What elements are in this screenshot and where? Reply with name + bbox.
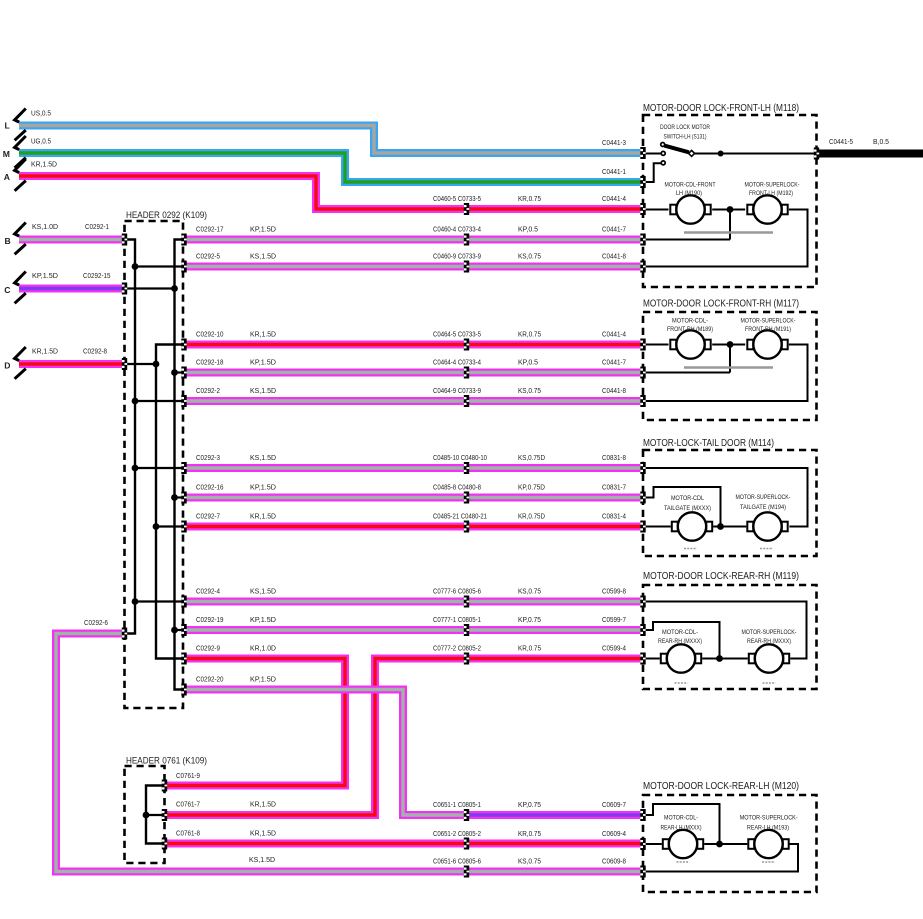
label REAR-LH (MXXX) [661, 825, 702, 832]
svg-text:KS,1.5D: KS,1.5D [250, 587, 277, 596]
svg-text:KS,1.0D: KS,1.0D [32, 222, 59, 231]
label C0292-4 [196, 587, 220, 596]
svg-text:C0292-7: C0292-7 [196, 512, 220, 521]
pin C0292-9 [181, 653, 186, 665]
off-page arrow A [15, 159, 26, 191]
label C0292-7 [196, 512, 220, 521]
svg-text:C0441-5: C0441-5 [829, 137, 853, 146]
pin C0292-2 [181, 395, 186, 407]
svg-text:KS,1.5D: KS,1.5D [250, 386, 277, 395]
label C0464-9 C0733-9 [433, 386, 481, 395]
svg-text:KR,0.75D: KR,0.75D [518, 512, 545, 521]
inline connector C0777-2/C0805-2 [464, 653, 469, 665]
svg-text:KS,0.75: KS,0.75 [518, 587, 541, 596]
inline connector C0485-21/C0480-21 [464, 521, 469, 533]
label KR,1.5D row D [32, 347, 59, 356]
junction KS-C0292-2 [132, 398, 139, 405]
off-page arrow B [15, 223, 26, 255]
svg-text:KP,1.5D: KP,1.5D [250, 615, 277, 624]
svg-text:C0485-10 C0480-10: C0485-10 C0480-10 [433, 453, 487, 462]
svg-text:C0761-8: C0761-8 [176, 829, 200, 838]
svg-text:C0292-18: C0292-18 [196, 358, 224, 367]
wire KS C0292-6 to C0609-8 [56, 634, 641, 872]
svg-text:C0292-6: C0292-6 [84, 618, 108, 627]
pin label C0609-8 y863.5 [602, 857, 626, 866]
pin C0292-5 [181, 261, 186, 273]
svg-text:MOTOR-SUPERLOCK-: MOTOR-SUPERLOCK- [741, 318, 796, 325]
svg-text:C0464-5 C0733-5: C0464-5 C0733-5 [433, 330, 481, 339]
label MOTOR-CDL tailgate [671, 495, 704, 502]
pin C0292-16 [181, 492, 186, 504]
label KP,0.5 at y231.5 [518, 225, 538, 234]
svg-text:C0831-4: C0831-4 [602, 512, 626, 521]
inline connector C0464-9/C0733-9 [464, 395, 469, 407]
svg-text:KP,1.5D: KP,1.5D [250, 675, 277, 684]
wire KP,1.5D from C to C0292-15 [19, 285, 126, 293]
node C [4, 285, 10, 295]
label KR,1.5D row A [31, 160, 58, 169]
label C0292-20 [196, 675, 224, 684]
label B,0.5 [873, 137, 889, 146]
wire KR C0761-7 to C0599-4 [167, 659, 641, 816]
wire US,0.5 from L to C0441-3 [19, 126, 641, 154]
label KP,0.75 at y807 [518, 800, 541, 809]
svg-text:MOTOR-CDL-: MOTOR-CDL- [662, 629, 698, 636]
svg-text:KR,0.75: KR,0.75 [518, 829, 541, 838]
svg-text:REAR-LH (MXXX): REAR-LH (MXXX) [661, 825, 702, 832]
svg-text:C0460-5 C0733-5: C0460-5 C0733-5 [433, 194, 481, 203]
label FRONT-LH (M192) [749, 190, 793, 197]
label C0651-2 C0805-2 [433, 829, 481, 838]
svg-text:TAILGATE (M194): TAILGATE (M194) [740, 504, 786, 511]
pin C0292-8 [122, 358, 127, 370]
box M114 MOTOR-LOCK-TAIL DOOR [643, 450, 817, 556]
wire KS stub to C0292-4 [135, 600, 184, 602]
svg-text:KP,0.75: KP,0.75 [518, 800, 541, 809]
svg-text:KS,0.75: KS,0.75 [518, 857, 541, 866]
svg-text:C0460-9 C0733-9: C0460-9 C0733-9 [433, 252, 481, 261]
pin C0441-1 [640, 176, 645, 188]
label C0292-15 [83, 271, 111, 280]
label C0460-5 C0733-5 [433, 194, 481, 203]
svg-text:MOTOR-CDL-: MOTOR-CDL- [672, 318, 708, 325]
label FRONT-RH (M189) [667, 326, 713, 333]
svg-text:TAILGATE (MXXX): TAILGATE (MXXX) [664, 505, 711, 512]
wire C0441-4 to motor M190 [643, 209, 669, 211]
svg-text:C0761-7: C0761-7 [176, 800, 200, 809]
svg-text:C0460-4 C0733-4: C0460-4 C0733-4 [433, 225, 481, 234]
wire KR bus in header 0292 [156, 345, 184, 659]
svg-text:KS,1.5D: KS,1.5D [250, 453, 277, 462]
label MOTOR-SUPERLOCK- M194 [736, 494, 791, 501]
wire KP bus in header 0292 [175, 240, 185, 690]
pin C0292-19 [181, 624, 186, 636]
wire KR stub from C0292-8 [125, 363, 157, 365]
svg-text:FRONT-LH (M192): FRONT-LH (M192) [749, 190, 793, 197]
pin C0292-15 [122, 283, 127, 295]
wire KP C0292-16 to C0831-7 [186, 494, 641, 502]
pin label C0831-8 y460 [602, 453, 626, 462]
label KR,0.75 at y650.5 [518, 644, 541, 653]
wire stub to C0761-7 [146, 814, 165, 816]
inline connector C0777-1/C0805-1 [464, 624, 469, 636]
wire B,0.5 ground cable from C0441-5 [818, 150, 923, 158]
svg-text:KR,1.5D: KR,1.5D [31, 160, 58, 169]
title box M114 [643, 438, 774, 449]
label KS,1.5D for C0292-5 [250, 252, 277, 261]
svg-text:REAR-RH (MXXX): REAR-RH (MXXX) [658, 638, 702, 645]
pin C0831-7 [640, 492, 645, 504]
wire C0831-4 to motor MXXX [643, 526, 671, 528]
svg-text:REAR-RH (MXXX): REAR-RH (MXXX) [747, 638, 791, 645]
svg-text:C0651-2 C0805-2: C0651-2 C0805-2 [433, 829, 481, 838]
motor M194 MOTOR-SUPERLOCK-TAILGATE [747, 512, 787, 540]
motor MOTOR-CDL-REAR-RH [661, 644, 701, 672]
box M118 MOTOR-DOOR LOCK-FRONT-LH [643, 115, 817, 287]
label KP,0.75 at y622 [518, 615, 541, 624]
junction C0761-7 [143, 812, 150, 819]
label MOTOR-CDL-FRONT [665, 182, 716, 189]
wire C0441-3 to switch [643, 153, 661, 155]
pin label C0441-7 y231.5 [602, 225, 626, 234]
svg-text:C0292-16: C0292-16 [196, 483, 224, 492]
svg-text:C0609-7: C0609-7 [602, 800, 626, 809]
label KP,0.75D at y489.5 [518, 483, 546, 492]
svg-text:C0599-8: C0599-8 [602, 587, 626, 596]
pin label C0441-4 y201 [602, 194, 626, 203]
label KS,1.0D row B [32, 222, 59, 231]
svg-text:KP,1.5D: KP,1.5D [32, 271, 59, 280]
svg-text:C0441-1: C0441-1 [602, 167, 626, 176]
ground hatch tailgate superlock [760, 548, 773, 550]
wire KS stub to C0292-2 [135, 400, 184, 402]
svg-text:MOTOR-DOOR LOCK-REAR-RH (M119): MOTOR-DOOR LOCK-REAR-RH (M119) [643, 571, 799, 582]
label KR,0.75 at y336.5 [518, 330, 541, 339]
inline connector C0651-1/C0805-1 [464, 809, 469, 821]
pin label C0599-4 y650.5 [602, 644, 626, 653]
label KS,1.5D bottom [249, 855, 276, 864]
label KR,1.0D for C0292-9 [250, 644, 277, 653]
label C0761-8 [176, 829, 200, 838]
wire KS C0292-4 to C0599-8 [186, 598, 641, 606]
node D [4, 361, 10, 371]
svg-text:US,0.5: US,0.5 [31, 109, 51, 118]
pin C0599-4 [640, 653, 645, 665]
svg-text:C0441-4: C0441-4 [602, 194, 626, 203]
svg-text:KS,1.5D: KS,1.5D [249, 855, 276, 864]
label MOTOR-CDL- rear LH [664, 815, 698, 822]
inline connector C0460-5/C0733-5 [464, 203, 469, 215]
label SWITCH-LH (S131) [664, 134, 707, 141]
label MOTOR-SUPERLOCK- M191 [741, 318, 796, 325]
svg-text:C0292-20: C0292-20 [196, 675, 224, 684]
label C0292-6 [84, 618, 108, 627]
shield line M118 [684, 231, 773, 234]
label C0292-2 [196, 386, 220, 395]
box M119 MOTOR-DOOR LOCK-REAR-RH [643, 585, 817, 689]
svg-text:C0441-7: C0441-7 [602, 225, 626, 234]
ground hatch rear-RH superlock [763, 682, 776, 684]
label C0761-9 [176, 771, 200, 780]
pin C0441-8 M117 [640, 395, 645, 407]
wire KS stub to C0292-3 [135, 467, 184, 469]
pin C0441-7 [640, 234, 645, 246]
svg-text:KR,1.5D: KR,1.5D [250, 829, 277, 838]
svg-text:C0441-7: C0441-7 [602, 358, 626, 367]
pin C0761-7 [162, 809, 167, 821]
svg-text:C0485-8 C0480-8: C0485-8 C0480-8 [433, 483, 481, 492]
wire KP stub to C0292-18 [175, 371, 185, 373]
pin C0441-8 [640, 261, 645, 273]
svg-text:KS,1.5D: KS,1.5D [250, 252, 277, 261]
node B [5, 236, 11, 246]
svg-text:KR,0.75: KR,0.75 [518, 644, 541, 653]
wire bus in header 0761 [146, 786, 165, 844]
svg-text:KR,1.5D: KR,1.5D [250, 512, 277, 521]
label KS,1.5D for C0292-3 [250, 453, 277, 462]
pin label C0441-8 y258.5 [602, 252, 626, 261]
label KR,1.5D for C0761-7 [250, 800, 277, 809]
label KS,0.75 at y258.5 [518, 252, 541, 261]
svg-text:MOTOR-SUPERLOCK-: MOTOR-SUPERLOCK- [740, 815, 798, 822]
label C0292-18 [196, 358, 224, 367]
motor MXXX MOTOR-CDL-TAILGATE [672, 512, 712, 540]
svg-text:C0609-8: C0609-8 [602, 857, 626, 866]
motor MOTOR-SUPERLOCK-REAR-RH [749, 644, 789, 672]
svg-text:B,0.5: B,0.5 [873, 137, 889, 146]
label C0485-8 C0480-8 [433, 483, 481, 492]
label MOTOR-SUPERLOCK- M192 [745, 182, 800, 189]
pin C0292-1 [122, 234, 127, 246]
pin C0831-4 [640, 521, 645, 533]
svg-text:A: A [4, 172, 10, 182]
label C0485-10 C0480-10 [433, 453, 487, 462]
svg-text:C0441-8: C0441-8 [602, 386, 626, 395]
svg-text:MOTOR-LOCK-TAIL DOOR (M114): MOTOR-LOCK-TAIL DOOR (M114) [643, 438, 774, 449]
svg-text:C0777-2 C0805-2: C0777-2 C0805-2 [433, 644, 481, 653]
wire KP stub to C0292-16 [175, 496, 185, 498]
inline connector C0464-5/C0733-5 [464, 339, 469, 351]
pin C0599-8 [640, 596, 645, 608]
wire KS bus in header 0292 [125, 240, 136, 634]
svg-text:MOTOR-CDL: MOTOR-CDL [671, 495, 704, 502]
wire KP C0292-20 down to row C0609-7 [186, 690, 467, 816]
label TAILGATE (MXXX) [664, 505, 711, 512]
label C0485-21 C0480-21 [433, 512, 487, 521]
label KS,1.5D for C0292-4 [250, 587, 277, 596]
title box M118 [643, 103, 799, 114]
junction motors M117 [727, 341, 734, 348]
svg-text:LH (M190): LH (M190) [676, 190, 702, 197]
pin C0292-4 [181, 596, 186, 608]
label C0292-5 [196, 252, 220, 261]
inline connector C0460-9/C0733-9 [464, 261, 469, 273]
label KS,0.75 at y393 [518, 386, 541, 395]
svg-text:D: D [4, 361, 10, 371]
wire KP,0.75 C0805-1 to C0609-7 [465, 811, 641, 819]
junction KP-C0292-18 [171, 369, 178, 376]
pin label C0831-7 y489.5 [602, 483, 626, 492]
wire KR,1.5D from D to C0292-8 [19, 360, 126, 368]
label MOTOR-SUPERLOCK- rear RH [742, 629, 797, 636]
pin C0609-8 [640, 866, 645, 878]
svg-text:KR,1.5D: KR,1.5D [32, 347, 59, 356]
svg-text:KR,0.75: KR,0.75 [518, 194, 541, 203]
junction motors M119 [716, 655, 723, 662]
svg-text:C0292-3: C0292-3 [196, 453, 220, 462]
pin label C0441-7 y364.5 [602, 358, 626, 367]
label C0777-1 C0805-1 [433, 615, 481, 624]
off-page arrow C [15, 272, 26, 304]
label C0761-7 [176, 800, 200, 809]
pin C0599-7 [640, 624, 645, 636]
svg-text:MOTOR-CDL-FRONT: MOTOR-CDL-FRONT [665, 182, 716, 189]
box M117 MOTOR-DOOR LOCK-FRONT-RH [643, 312, 817, 420]
svg-text:M: M [3, 149, 10, 159]
pin label C0831-4 y518.5 [602, 512, 626, 521]
svg-text:C: C [4, 285, 10, 295]
junction motors M114 [717, 523, 724, 530]
svg-text:C0777-6 C0805-6: C0777-6 C0805-6 [433, 587, 481, 596]
motor M192 MOTOR-SUPERLOCK-FRONT-LH [747, 195, 787, 223]
svg-text:HEADER 0761 (K109): HEADER 0761 (K109) [126, 756, 207, 766]
motor M190 MOTOR-CDL-FRONT-LH [670, 195, 710, 223]
label DOOR LOCK MOTOR [660, 124, 710, 131]
svg-text:MOTOR-DOOR LOCK-FRONT-RH (M117: MOTOR-DOOR LOCK-FRONT-RH (M117) [643, 299, 799, 310]
wire motor link M119 [702, 658, 748, 660]
label C0292-16 [196, 483, 224, 492]
label REAR-RH (MXXX) cdl [658, 638, 702, 645]
label KP,1.5D for C0292-20 [250, 675, 277, 684]
label C0651-6 C0805-6 [433, 857, 481, 866]
svg-text:MOTOR-DOOR LOCK-FRONT-LH (M118: MOTOR-DOOR LOCK-FRONT-LH (M118) [643, 103, 799, 114]
pin C0292-6 [122, 628, 127, 640]
pin label C0609-7 y807 [602, 800, 626, 809]
wire C0599-7 to motor junction [643, 622, 720, 659]
label KR,0.75 at y201 [518, 194, 541, 203]
label C0292-8 [83, 347, 107, 356]
svg-text:C0292-10: C0292-10 [196, 330, 224, 339]
junction KS-C0292-4 [132, 598, 139, 605]
svg-text:KR,1.0D: KR,1.0D [250, 644, 277, 653]
svg-text:B: B [5, 236, 11, 246]
svg-text:C0292-15: C0292-15 [83, 271, 111, 280]
label REAR-RH (MXXX) superlock [747, 638, 791, 645]
svg-text:C0292-5: C0292-5 [196, 252, 220, 261]
svg-text:C0292-17: C0292-17 [196, 225, 224, 234]
pin C0292-7 [181, 521, 186, 533]
svg-text:KS,0.75: KS,0.75 [518, 252, 541, 261]
svg-text:UG,0.5: UG,0.5 [31, 137, 51, 146]
svg-text:KP,1.5D: KP,1.5D [250, 483, 277, 492]
label KP,1.5D for C0292-18 [250, 358, 277, 367]
wire C0609-4 to motor [643, 843, 662, 845]
label KP,1.5D row C [32, 271, 59, 280]
label C0777-2 C0805-2 [433, 644, 481, 653]
label KS,0.75D at y460 [518, 453, 545, 462]
svg-text:C0599-7: C0599-7 [602, 615, 626, 624]
junction KP-C0292-15 [171, 285, 178, 292]
wire C0441-7 line M117 [643, 372, 730, 374]
off-page arrow M [15, 136, 26, 168]
wire C0599-8 loop to superlock [643, 602, 807, 659]
label MOTOR-CDL- rear RH [662, 629, 698, 636]
motor M191 MOTOR-SUPERLOCK-FRONT-RH [747, 330, 787, 358]
wire KS C0292-2 to C0441-8 M117 [186, 397, 641, 405]
wire KP C0292-17 to C0441-7 [186, 236, 641, 244]
motor MOTOR-CDL-REAR-LH [663, 830, 703, 858]
motor M189 MOTOR-CDL-FRONT-RH [670, 330, 710, 358]
junction KP-C0292-16 [171, 494, 178, 501]
label KR,0.75D at y518.5 [518, 512, 545, 521]
junction KS-C0292-3 [132, 465, 139, 472]
wire C0831-7 to motor junction [643, 487, 721, 527]
wire junction down to C0441-7 [729, 210, 731, 240]
wire KS C0292-5 to C0441-8 [186, 263, 641, 271]
svg-text:C0441-8: C0441-8 [602, 252, 626, 261]
ground hatch rear-LH superlock [762, 861, 775, 863]
label C0651-1 C0805-1 [433, 800, 481, 809]
pin label C0441-3 y145 [602, 138, 626, 147]
pin C0761-8 [162, 838, 167, 850]
svg-text:KP,0.5: KP,0.5 [518, 225, 538, 234]
label C0460-9 C0733-9 [433, 252, 481, 261]
wire C0609-7 to motor junction [643, 804, 720, 844]
label KS,0.75 at y593.5 [518, 587, 541, 596]
pin C0292-17 [181, 234, 186, 246]
box M120 MOTOR-DOOR LOCK-REAR-LH [643, 795, 817, 892]
junction motors M118 [727, 206, 734, 213]
wire KR C0761-8 to C0609-4 [167, 840, 641, 848]
svg-text:KR,1.5D: KR,1.5D [250, 800, 277, 809]
label US,0.5 [31, 109, 51, 118]
node M [3, 149, 10, 159]
title HEADER 0761 (K109) [126, 756, 207, 766]
junction KR-C0292-8 [153, 361, 160, 368]
wire junction down to C0441-7 M117 [729, 345, 731, 373]
motor M193 MOTOR-SUPERLOCK-REAR-LH [748, 830, 788, 858]
svg-text:C0292-8: C0292-8 [83, 347, 107, 356]
label KS,0.75 at y863.5 [518, 857, 541, 866]
svg-text:C0651-6 C0805-6: C0651-6 C0805-6 [433, 857, 481, 866]
pin C0441-4 [640, 203, 645, 215]
svg-text:KR,0.75: KR,0.75 [518, 330, 541, 339]
svg-text:C0464-9 C0733-9: C0464-9 C0733-9 [433, 386, 481, 395]
svg-text:KS,0.75D: KS,0.75D [518, 453, 545, 462]
wire KP C0292-19 to C0599-7 [186, 626, 641, 634]
inline connector C0485-8/C0480-8 [464, 492, 469, 504]
svg-text:C0777-1 C0805-1: C0777-1 C0805-1 [433, 615, 481, 624]
svg-text:L: L [5, 121, 10, 131]
wire KR C0292-10 to C0441-4 M117 [186, 341, 641, 349]
svg-text:DOOR LOCK MOTOR: DOOR LOCK MOTOR [660, 124, 710, 131]
title box M120 [643, 781, 799, 792]
junction KP-C0292-19 [171, 627, 178, 634]
label KP,0.5 at y364.5 [518, 358, 538, 367]
label REAR-LH (M193) [747, 825, 789, 832]
pin label C0441-1 y174 [602, 167, 626, 176]
svg-text:C0599-4: C0599-4 [602, 644, 626, 653]
label MOTOR-SUPERLOCK- rear LH [740, 815, 798, 822]
wire KP C0292-18 to C0441-7 M117 [186, 369, 641, 377]
wire KS stub to C0292-5 [135, 265, 184, 267]
label C0460-4 C0733-4 [433, 225, 481, 234]
label FRONT-RH (M191) [745, 326, 791, 333]
svg-text:MOTOR-DOOR LOCK-REAR-LH (M120): MOTOR-DOOR LOCK-REAR-LH (M120) [643, 781, 799, 792]
pin C0609-4 [640, 838, 645, 850]
svg-text:MOTOR-CDL-: MOTOR-CDL- [664, 815, 698, 822]
svg-text:C0292-19: C0292-19 [196, 615, 224, 624]
